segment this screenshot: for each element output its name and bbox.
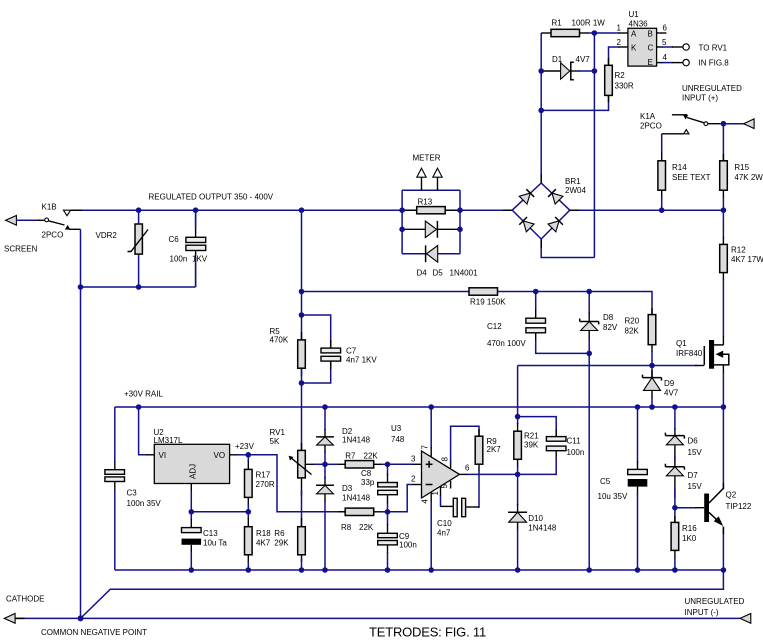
svg-text:R15: R15 [734,163,749,172]
svg-text:R7: R7 [345,452,356,461]
node U3 pin7 on +30V rail [428,404,434,410]
svg-text:TIP122: TIP122 [726,502,752,511]
svg-text:R17: R17 [256,471,271,480]
wire R13 row [402,209,460,211]
svg-text:270R: 270R [256,480,275,489]
svg-text:1: 1 [617,24,622,33]
wire VDR2 branch [138,210,140,287]
svg-text:1N4148: 1N4148 [342,494,371,503]
svg-text:22K: 22K [359,523,374,532]
wire op-amp output [460,473,518,475]
resistor R19 [469,288,506,307]
svg-text:4n7 1KV: 4n7 1KV [346,355,377,364]
node R19 line left [299,289,305,295]
diode D10 [508,512,557,532]
svg-text:100n 35V: 100n 35V [127,499,162,508]
svg-text:1: 1 [431,491,440,496]
svg-text:C13: C13 [203,529,218,538]
node C5 bottom on 0V rail [635,567,641,573]
svg-text:2W04: 2W04 [565,186,586,195]
wire R8 right [374,511,388,513]
capacitor C9 [378,532,417,550]
zener D6 [665,433,702,457]
node op-amp output [515,472,521,478]
wire R16 branch [674,508,676,570]
svg-text:C6: C6 [169,235,180,244]
svg-text:470K: 470K [270,336,289,345]
svg-text:2: 2 [411,475,416,484]
svg-text:C: C [648,44,654,53]
node D4 left [399,227,405,233]
node D8 line on 0V rail [586,567,592,573]
svg-text:ADJ: ADJ [189,464,198,479]
svg-text:TO RV1: TO RV1 [699,44,728,53]
wire C7 branch [302,315,331,383]
op-amp U3 [391,424,470,504]
svg-text:VO: VO [214,451,226,460]
svg-text:4: 4 [420,499,429,504]
wire gate line [518,365,705,367]
svg-text:D6: D6 [688,437,699,446]
svg-text:33p: 33p [361,478,375,487]
svg-text:UNREGULATED: UNREGULATED [685,597,745,606]
node D9 bottom on +30V rail [649,404,655,410]
svg-text:R6: R6 [274,529,285,538]
svg-text:R5: R5 [270,327,281,336]
svg-text:4: 4 [663,53,668,62]
resistor R15 [720,161,763,190]
svg-text:1KV: 1KV [192,255,208,264]
svg-text:INPUT (+): INPUT (+) [682,94,718,103]
svg-text:CATHODE: CATHODE [6,595,45,604]
wire R18 branch [247,512,249,570]
wire R1 row pin A [541,32,628,34]
wire R20 to gate node [651,345,653,366]
label BR1 [565,177,586,195]
diode D5 [426,245,478,277]
svg-text:C12: C12 [487,322,502,331]
svg-text:C9: C9 [399,532,410,541]
resistor R16 [671,522,697,550]
resistor R1 [551,19,605,37]
capacitor C12 [487,318,546,348]
switch K1B [42,203,83,240]
svg-text:39K: 39K [524,440,539,449]
wire bridge top stub [540,174,542,183]
potentiometer RV1 [270,428,312,478]
svg-text:4N36: 4N36 [629,20,649,29]
svg-text:SEE TEXT: SEE TEXT [672,173,711,182]
wire U1 pin C to pad [657,44,728,53]
wire pin8 R9 top loop [451,426,479,468]
wire R5/RV1 column [301,210,303,570]
wire pin1 to C10 left [441,486,454,507]
resistor R13 [417,198,446,214]
wire R17 branch [247,455,249,512]
wire U2 VI feed [139,407,155,455]
capacitor C8 [361,469,397,495]
wire bridge left stub [503,209,512,211]
wire C12 branch [536,292,590,354]
svg-text:47K 2W: 47K 2W [734,173,763,182]
node K1A pole / R15 top [721,121,727,127]
capacitor C6 [169,235,208,264]
node Q2 emitter on 0V rail [721,567,727,573]
svg-text:REGULATED OUTPUT 350 - 400V: REGULATED OUTPUT 350 - 400V [149,193,274,202]
svg-text:3: 3 [411,455,416,464]
svg-text:4V7: 4V7 [576,55,591,64]
svg-text:C10: C10 [437,519,452,528]
svg-text:D4: D4 [417,269,428,278]
svg-text:C3: C3 [127,489,138,498]
bridge BR1 diode top-right [548,189,563,204]
svg-text:330R: 330R [615,82,634,91]
node D4 right [457,227,463,233]
svg-text:E: E [648,58,653,67]
capacitor C13 [182,528,228,548]
svg-text:METER: METER [413,154,441,163]
wire C5 branch [637,407,639,570]
zener D7 [665,464,702,491]
svg-text:VDR2: VDR2 [96,231,118,240]
node D2 top on +30V rail [322,404,328,410]
svg-text:U1: U1 [629,10,640,19]
wire U1 pin E to pad [657,58,730,67]
svg-text:D3: D3 [342,484,353,493]
svg-text:8: 8 [441,457,450,462]
node R7 / C8 / pin3 [385,462,391,468]
wire 0V rail [115,569,724,571]
connector unregulated input - [685,597,751,623]
svg-text:A: A [631,30,637,39]
wire op-amp pin7 supply [430,407,432,457]
svg-text:4K7 17W: 4K7 17W [731,255,763,264]
wire opto loop left x541 [540,33,542,183]
svg-text:SCREEN: SCREEN [4,245,38,254]
svg-text:100n: 100n [170,255,188,264]
node D6 top on +30V rail [672,404,678,410]
wire meter box [402,190,460,254]
bridge BR1 diode bottom-left [519,217,534,232]
capacitor C5 [598,469,648,501]
node C12 bottom / D8 cathode [586,351,592,357]
node R2 return / bridge top [538,108,544,114]
wire K1B arm to common negative [80,229,82,618]
svg-text:UNREGULATED: UNREGULATED [682,84,742,93]
svg-text:VI: VI [159,451,167,460]
svg-text:D10: D10 [528,514,543,523]
node D7 bottom / Q2 base [672,505,678,511]
resistor R17 [245,469,275,497]
resistor R8 [341,508,374,532]
svg-text:IN FIG.8: IN FIG.8 [699,58,730,67]
diode D4 [417,221,438,278]
svg-text:1N4001: 1N4001 [450,269,479,278]
wire bridge bottom stub [540,239,542,248]
wire opto loop right x594 [541,33,594,258]
svg-text:6: 6 [663,24,668,33]
capacitor C3 [105,470,162,508]
wire U2 VO +23V node [230,454,249,456]
node U2 VI on +30V rail [136,404,142,410]
wire D2/D3 clamp column [324,407,326,570]
connector unregulated input + [682,84,754,129]
meter arrows [413,154,443,178]
capacitor C10 [437,498,466,537]
capacitor C11 [546,437,584,457]
svg-text:100n: 100n [399,541,417,550]
wire regulated output rail [71,209,724,211]
svg-text:100R 1W: 100R 1W [572,19,606,28]
node R16 bottom on 0V rail [672,567,678,573]
node R21 top / C11 feed [515,414,521,420]
wire meter arrow stubs [422,177,438,190]
resistor R5 [270,327,306,368]
svg-text:1K0: 1K0 [682,534,697,543]
label +30V RAIL [124,390,163,399]
wire Q2 base link [675,507,704,509]
node C13 bottom on 0V rail [189,567,195,573]
svg-text:5K: 5K [270,437,280,446]
switch K1A [640,112,721,131]
capacitor C7 [321,347,377,365]
node RV1 wiper / D2-D3 junction [322,462,328,468]
wire output node column R21/D10 [517,366,519,571]
node C7 top branch [299,312,305,318]
svg-text:D5: D5 [433,269,444,278]
svg-text:K: K [631,44,637,53]
svg-text:470n 100V: 470n 100V [487,339,526,348]
connector CATHODE [4,595,44,624]
resistor R12 [720,244,763,272]
svg-text:RV1: RV1 [270,428,286,437]
zener D8 [580,313,618,332]
bridge BR1 diode top-left [519,189,534,204]
svg-text:C5: C5 [600,477,611,486]
svg-text:R12: R12 [731,246,746,255]
wire +30V rail [115,406,724,408]
wire R19 feedback line [302,292,653,316]
svg-text:U3: U3 [391,424,402,433]
wire right column R15-R12-Q1-Q2 [722,124,724,570]
svg-text:TETRODES: FIG. 11: TETRODES: FIG. 11 [369,625,486,640]
node R5 top on regulated rail [299,207,305,213]
wire R9 bottom to C10 right [466,464,479,508]
node R6 bottom on 0V rail [299,567,305,573]
svg-text:INPUT (-): INPUT (-) [685,608,719,617]
svg-text:4n7: 4n7 [437,529,451,538]
node Q1 source on +30V rail [721,404,727,410]
node R18 bottom on 0V rail [246,567,252,573]
resistor R20 [625,315,656,345]
wire R2 bottom link [541,95,608,110]
svg-text:D9: D9 [664,379,675,388]
svg-text:4V7: 4V7 [664,389,679,398]
wire op-amp pin4 supply [430,492,432,570]
wire K1A NO contact to R14 [662,130,689,134]
varistor VDR2 [96,224,149,254]
node R5 bottom / C7 bottom [299,380,305,386]
node meter right on regulated rail [457,207,463,213]
svg-text:R18: R18 [256,529,271,538]
svg-text:10u Ta: 10u Ta [203,539,227,548]
svg-text:R20: R20 [625,317,640,326]
resistor R21 [514,431,539,459]
node R15 bottom / R12 top [721,207,727,213]
resistor R9 [475,436,501,464]
svg-text:1N4148: 1N4148 [342,436,371,445]
svg-text:15V: 15V [688,448,703,457]
wire bridge right stub [570,209,579,211]
node D10 bottom on 0V rail [515,567,521,573]
wire C9 branch [387,512,389,570]
wire D9 branch [651,366,653,408]
node R20 bottom / D9 top / gate [649,363,655,369]
bridge BR1 diode bottom-right [548,217,563,232]
optocoupler U1 4N36 [617,10,668,67]
wire common negative bottom line [15,617,740,619]
node +23V VO [246,452,252,458]
svg-text:D1: D1 [552,55,563,64]
svg-text:2PCO: 2PCO [640,122,662,131]
wire C6 branch [195,210,197,287]
svg-text:R19 150K: R19 150K [470,298,506,307]
wire VDR2/C6 bottom link [81,286,196,288]
wire C8 branch [387,464,389,512]
wire bridge diamond [512,183,570,239]
svg-text:R8: R8 [341,523,352,532]
wire D8 column [588,292,590,571]
node C6 top on regulated rail [193,207,199,213]
svg-text:D7: D7 [688,471,699,480]
node common negative point [78,615,84,621]
resistor R18 [245,527,272,555]
node VDR2 bottom [136,284,142,290]
wire +23V to R8 feed [248,455,346,512]
svg-text:1N4148: 1N4148 [528,523,557,532]
wire U2 ADJ pin [191,484,248,512]
node U3 pin4 on 0V rail [428,567,434,573]
node ADJ / C13 top [189,509,195,515]
wire D6/D7 chain [674,407,676,508]
svg-text:82K: 82K [625,326,640,335]
svg-text:29K: 29K [274,539,289,548]
diode D3 [316,484,370,503]
node C5 top on +30V rail [635,404,641,410]
node R14 bottom on regulated rail [659,207,665,213]
node R17 bottom / R18 top [246,509,252,515]
wire cathode return line [81,570,724,618]
svg-text:2PCO: 2PCO [42,231,64,240]
svg-text:748: 748 [391,435,405,444]
svg-text:R13: R13 [418,198,433,207]
svg-text:R16: R16 [682,524,697,533]
wire R2 top to U1 pin K [609,47,628,65]
wire R14 branch [661,134,663,210]
svg-text:+23V: +23V [235,442,255,451]
diode D2 [316,427,370,445]
resistor R6 [274,527,305,555]
wire C3 branch [114,407,116,570]
wire R7 row pin3 node [325,463,388,465]
wire C11 branch [518,417,557,475]
label common negative point [41,628,147,637]
svg-text:15V: 15V [688,482,703,491]
resistor R14 [658,161,711,190]
svg-text:K1B: K1B [42,203,57,212]
svg-text:7: 7 [421,445,430,450]
svg-text:BR1: BR1 [565,177,581,186]
wire pin2 feed [388,485,422,512]
node R1 / U1 pin1 [592,30,598,36]
node D3 bottom on 0V rail [322,567,328,573]
svg-text:+30V RAIL: +30V RAIL [124,390,163,399]
svg-text:2K7: 2K7 [487,445,502,454]
svg-text:10u 35V: 10u 35V [598,492,628,501]
svg-text:Q2: Q2 [726,491,737,500]
svg-text:C8: C8 [361,469,372,478]
node C12 top [533,289,539,295]
svg-text:R14: R14 [672,163,687,172]
label regulated output [149,193,274,202]
resistor R2 [605,65,634,95]
node meter left on regulated rail [399,207,405,213]
wire C13 branch [190,512,192,570]
wire D1 row [541,70,594,72]
svg-text:R1: R1 [552,19,563,28]
node D1 anode [538,68,544,74]
resistor R7 [345,452,378,469]
wire RV1 wiper [305,463,325,465]
svg-text:B: B [648,30,653,39]
node C9 bottom on 0V rail [385,567,391,573]
connector SCREEN [4,216,45,254]
zener D9 [643,375,679,398]
svg-text:82V: 82V [603,323,618,332]
svg-text:5: 5 [662,38,667,47]
wire pin5 stub [450,481,452,489]
svg-text:5: 5 [440,484,449,489]
node D1 cathode [592,68,598,74]
svg-text:C11: C11 [567,437,582,446]
node K1B arm / VDR2-C6 return [78,284,84,290]
wire U1 pin B stub [657,32,667,34]
svg-text:6: 6 [465,464,470,473]
svg-text:C7: C7 [346,347,357,356]
svg-text:D8: D8 [603,313,614,322]
svg-text:100n: 100n [567,448,585,457]
svg-text:R2: R2 [615,71,626,80]
svg-text:COMMON NEGATIVE POINT: COMMON NEGATIVE POINT [41,628,147,637]
zener D1 [552,55,590,80]
label TETRODES FIG 11 [369,625,486,640]
svg-text:4K7: 4K7 [256,539,271,548]
node D8 top [586,289,592,295]
svg-text:Q1: Q1 [676,339,687,348]
svg-text:K1A: K1A [640,112,656,121]
label +23V [235,442,255,451]
node VDR2 top on regulated rail [136,207,142,213]
svg-text:22K: 22K [364,452,379,461]
mosfet Q1 IRF840 [676,339,729,369]
svg-text:IRF840: IRF840 [676,349,703,358]
regulator U2 LM317L [154,428,230,484]
transistor Q2 TIP122 [704,488,752,526]
svg-text:LM317L: LM317L [154,436,183,445]
wire D4 row [402,228,460,230]
svg-text:2: 2 [617,38,622,47]
node R8 / C8 / C9 / pin2 [385,509,391,515]
